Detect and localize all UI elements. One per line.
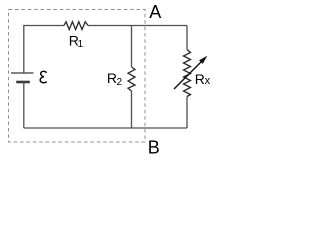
wire left branch bottom (battery negative lead down to bottom-left corner) — [23, 82, 25, 128]
variable resistor arrow head — [199, 56, 206, 63]
svg-text:A: A — [149, 2, 161, 22]
dashed boundary box — [9, 10, 146, 143]
svg-text:R1: R1 — [69, 32, 84, 50]
wire middle branch top (node to R2) — [131, 26, 133, 68]
wire right branch bottom (Rx down to bottom-right corner) — [186, 97, 188, 129]
svg-text:B: B — [148, 138, 160, 158]
wire right branch top (top wire corner down to Rx) — [186, 26, 188, 50]
battery short plate (negative) — [16, 81, 30, 84]
battery EMF source plates — [11, 73, 34, 82]
resistor R1 zigzag — [64, 22, 88, 30]
battery long plate (positive) — [11, 72, 34, 74]
resistor R2 zigzag — [128, 67, 135, 91]
label epsilon (EMF) — [40, 71, 46, 82]
wire middle branch bottom (R2 to bottom wire) — [131, 91, 133, 128]
wire left branch (battery top lead up to top-left corner, right to R1) — [24, 26, 64, 74]
variable resistor Rx zigzag — [184, 50, 191, 97]
variable resistor arrow shaft — [174, 62, 202, 90]
svg-text:R2: R2 — [107, 70, 123, 88]
svg-text:Rx: Rx — [195, 71, 211, 87]
wire top (R1 to node A corner / Rx branch) — [88, 25, 187, 27]
wire bottom (bottom-left corner to bottom-right corner) — [24, 127, 187, 129]
